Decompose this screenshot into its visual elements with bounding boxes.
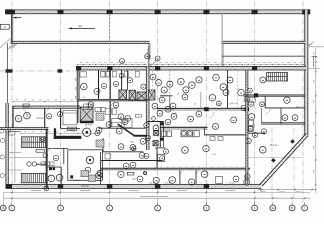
svg-text:29,2 м²: 29,2 м² [81, 185, 89, 188]
svg-text:14: 14 [78, 24, 82, 28]
svg-text:1220: 1220 [69, 128, 75, 131]
svg-text:23,4 м²: 23,4 м² [270, 144, 278, 147]
svg-text:34,5 м²: 34,5 м² [231, 102, 238, 105]
svg-text:34,1 м²: 34,1 м² [228, 182, 235, 185]
svg-text:16,6 м²: 16,6 м² [36, 117, 44, 120]
svg-text:16,6 м²: 16,6 м² [85, 123, 93, 126]
